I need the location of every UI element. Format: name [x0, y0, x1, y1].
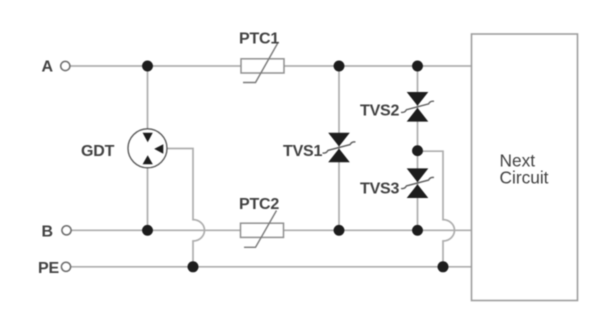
svg-text:B: B	[42, 224, 53, 241]
wire B left segment	[72, 229, 241, 231]
next circuit block	[472, 34, 578, 301]
node PE-TVS junction	[438, 261, 449, 272]
node A-TVS2 junction	[412, 61, 423, 72]
TVS diode TVS3 bidirectional	[401, 168, 434, 198]
svg-text:GDT: GDT	[81, 143, 115, 160]
svg-text:Circuit: Circuit	[500, 168, 549, 188]
svg-text:PTC1: PTC1	[239, 31, 279, 48]
wire GDT bottom vertical	[147, 168, 149, 231]
node PE-GDT junction	[188, 261, 199, 272]
wire A left segment	[71, 65, 242, 67]
terminal A	[61, 61, 70, 70]
node A-TVS1 junction	[334, 61, 345, 72]
wire B right segment	[284, 229, 472, 231]
svg-text:TVS1: TVS1	[283, 143, 323, 160]
wire GDT side electrode to PE with hop over B	[167, 149, 205, 267]
node TVS2-TVS3 midpoint	[412, 145, 423, 156]
TVS diode TVS2 bidirectional	[401, 92, 434, 122]
wire TVS midpoint to PE with hop over B	[418, 151, 455, 267]
svg-text:TVS2: TVS2	[360, 103, 400, 120]
svg-text:TVS3: TVS3	[360, 181, 400, 198]
node B-TVS3 junction	[412, 225, 423, 236]
svg-text:A: A	[42, 59, 54, 76]
wire A middle segment	[284, 65, 472, 67]
svg-text:PE: PE	[38, 260, 59, 277]
node A-GDT junction	[142, 61, 153, 72]
TVS diode TVS1 bidirectional	[323, 133, 356, 163]
node B-TVS1 junction	[334, 225, 345, 236]
terminal B	[62, 226, 71, 235]
svg-text:PTC2: PTC2	[239, 196, 279, 213]
wire TVS2 TVS3 column	[417, 66, 419, 230]
terminal PE	[61, 262, 70, 271]
resistor PTC2 thermistor	[241, 211, 284, 248]
gas discharge tube GDT	[128, 129, 167, 168]
node B-GDT junction	[142, 225, 153, 236]
wire GDT top vertical	[147, 66, 149, 129]
wire TVS1 column	[338, 66, 340, 230]
resistor PTC1 thermistor	[241, 44, 284, 83]
wire PE line	[71, 266, 472, 268]
